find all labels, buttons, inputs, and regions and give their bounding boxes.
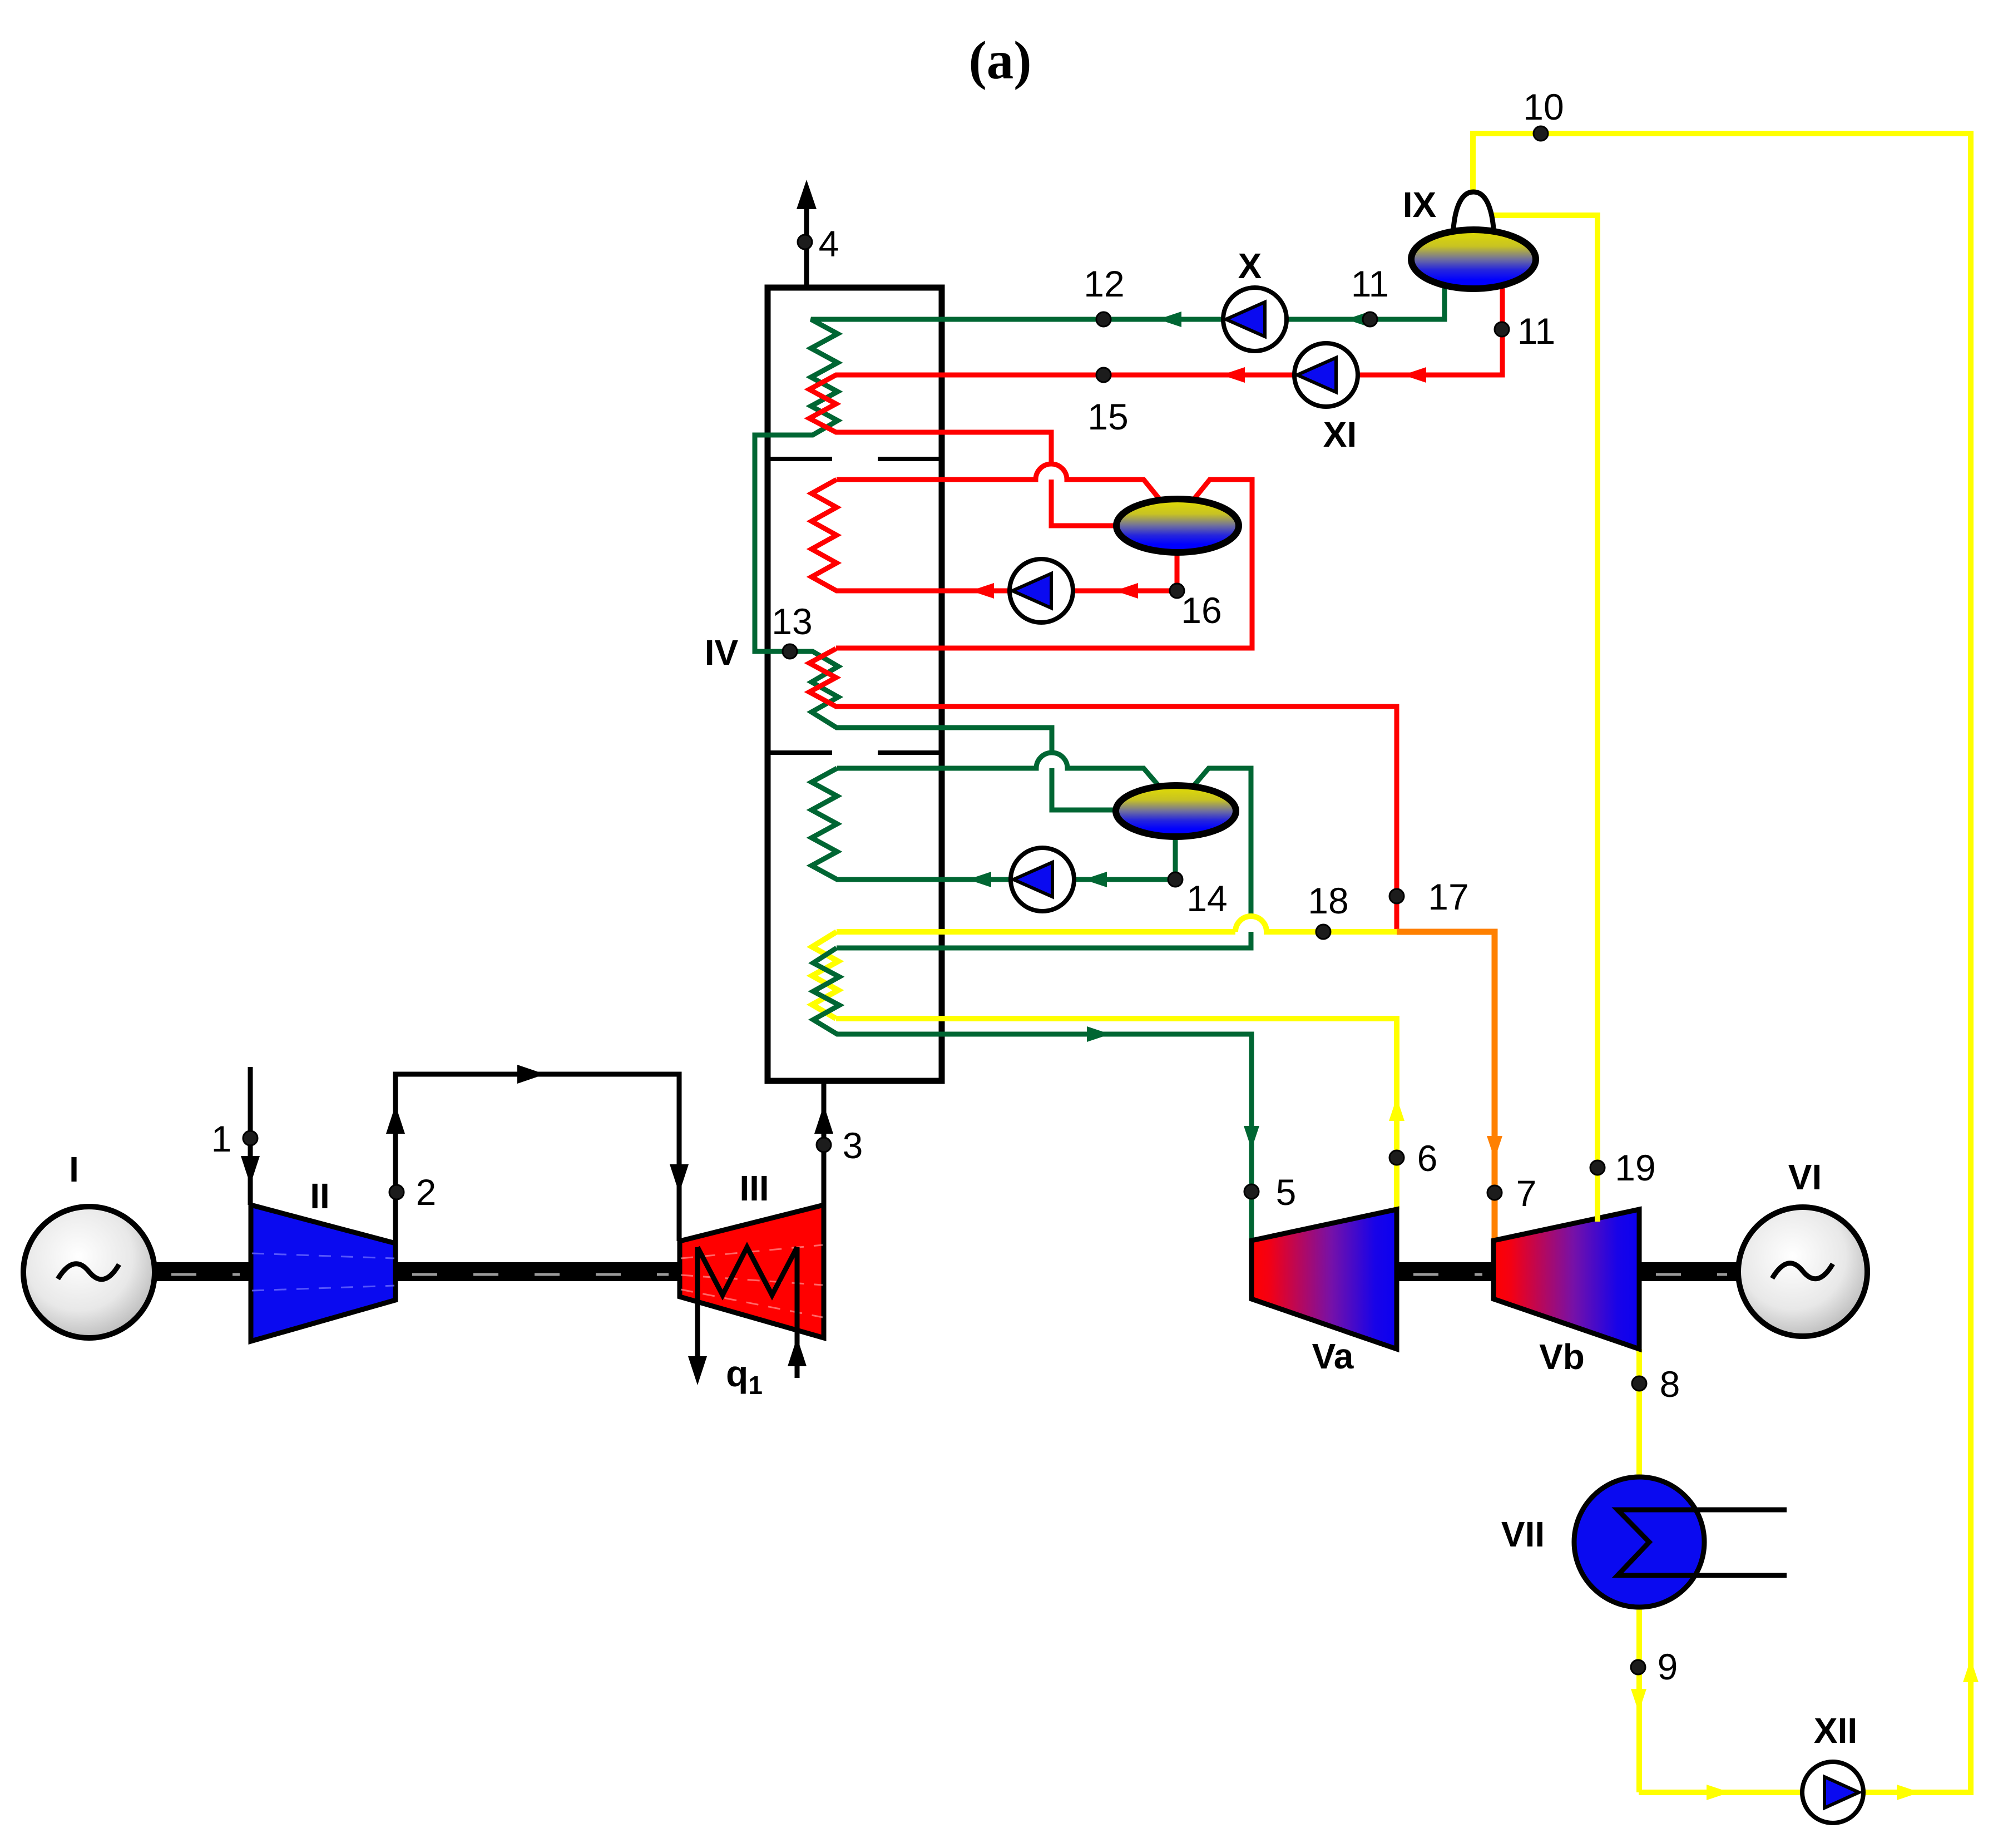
svg-text:I: I <box>69 1149 79 1189</box>
svg-text:6: 6 <box>1417 1138 1438 1179</box>
svg-text:VII: VII <box>1501 1514 1545 1554</box>
svg-text:17: 17 <box>1428 876 1468 917</box>
svg-text:13: 13 <box>771 601 812 642</box>
svg-text:IX: IX <box>1403 185 1437 225</box>
svg-text:X: X <box>1238 246 1262 286</box>
svg-text:5: 5 <box>1276 1172 1297 1213</box>
svg-text:XI: XI <box>1323 414 1357 454</box>
svg-text:2: 2 <box>416 1172 437 1213</box>
svg-text:12: 12 <box>1084 263 1124 304</box>
svg-text:(a): (a) <box>968 31 1031 90</box>
svg-text:14: 14 <box>1186 878 1227 919</box>
svg-text:VI: VI <box>1788 1157 1822 1197</box>
svg-text:III: III <box>739 1168 769 1208</box>
svg-text:18: 18 <box>1308 880 1348 921</box>
svg-text:3: 3 <box>843 1125 863 1166</box>
svg-text:IV: IV <box>705 633 739 673</box>
svg-text:XII: XII <box>1814 1711 1857 1751</box>
svg-text:9: 9 <box>1658 1646 1678 1687</box>
svg-text:II: II <box>310 1176 330 1216</box>
svg-text:19: 19 <box>1615 1147 1655 1188</box>
svg-text:11: 11 <box>1351 263 1389 304</box>
svg-text:7: 7 <box>1516 1173 1537 1214</box>
svg-text:10: 10 <box>1523 86 1564 127</box>
svg-text:Va: Va <box>1312 1336 1354 1376</box>
svg-text:15: 15 <box>1087 396 1128 437</box>
svg-text:1: 1 <box>211 1118 232 1159</box>
svg-text:8: 8 <box>1660 1363 1680 1405</box>
svg-text:4: 4 <box>819 223 839 264</box>
svg-text:Vb: Vb <box>1539 1337 1585 1377</box>
svg-text:16: 16 <box>1181 590 1221 631</box>
svg-text:11: 11 <box>1517 310 1556 352</box>
